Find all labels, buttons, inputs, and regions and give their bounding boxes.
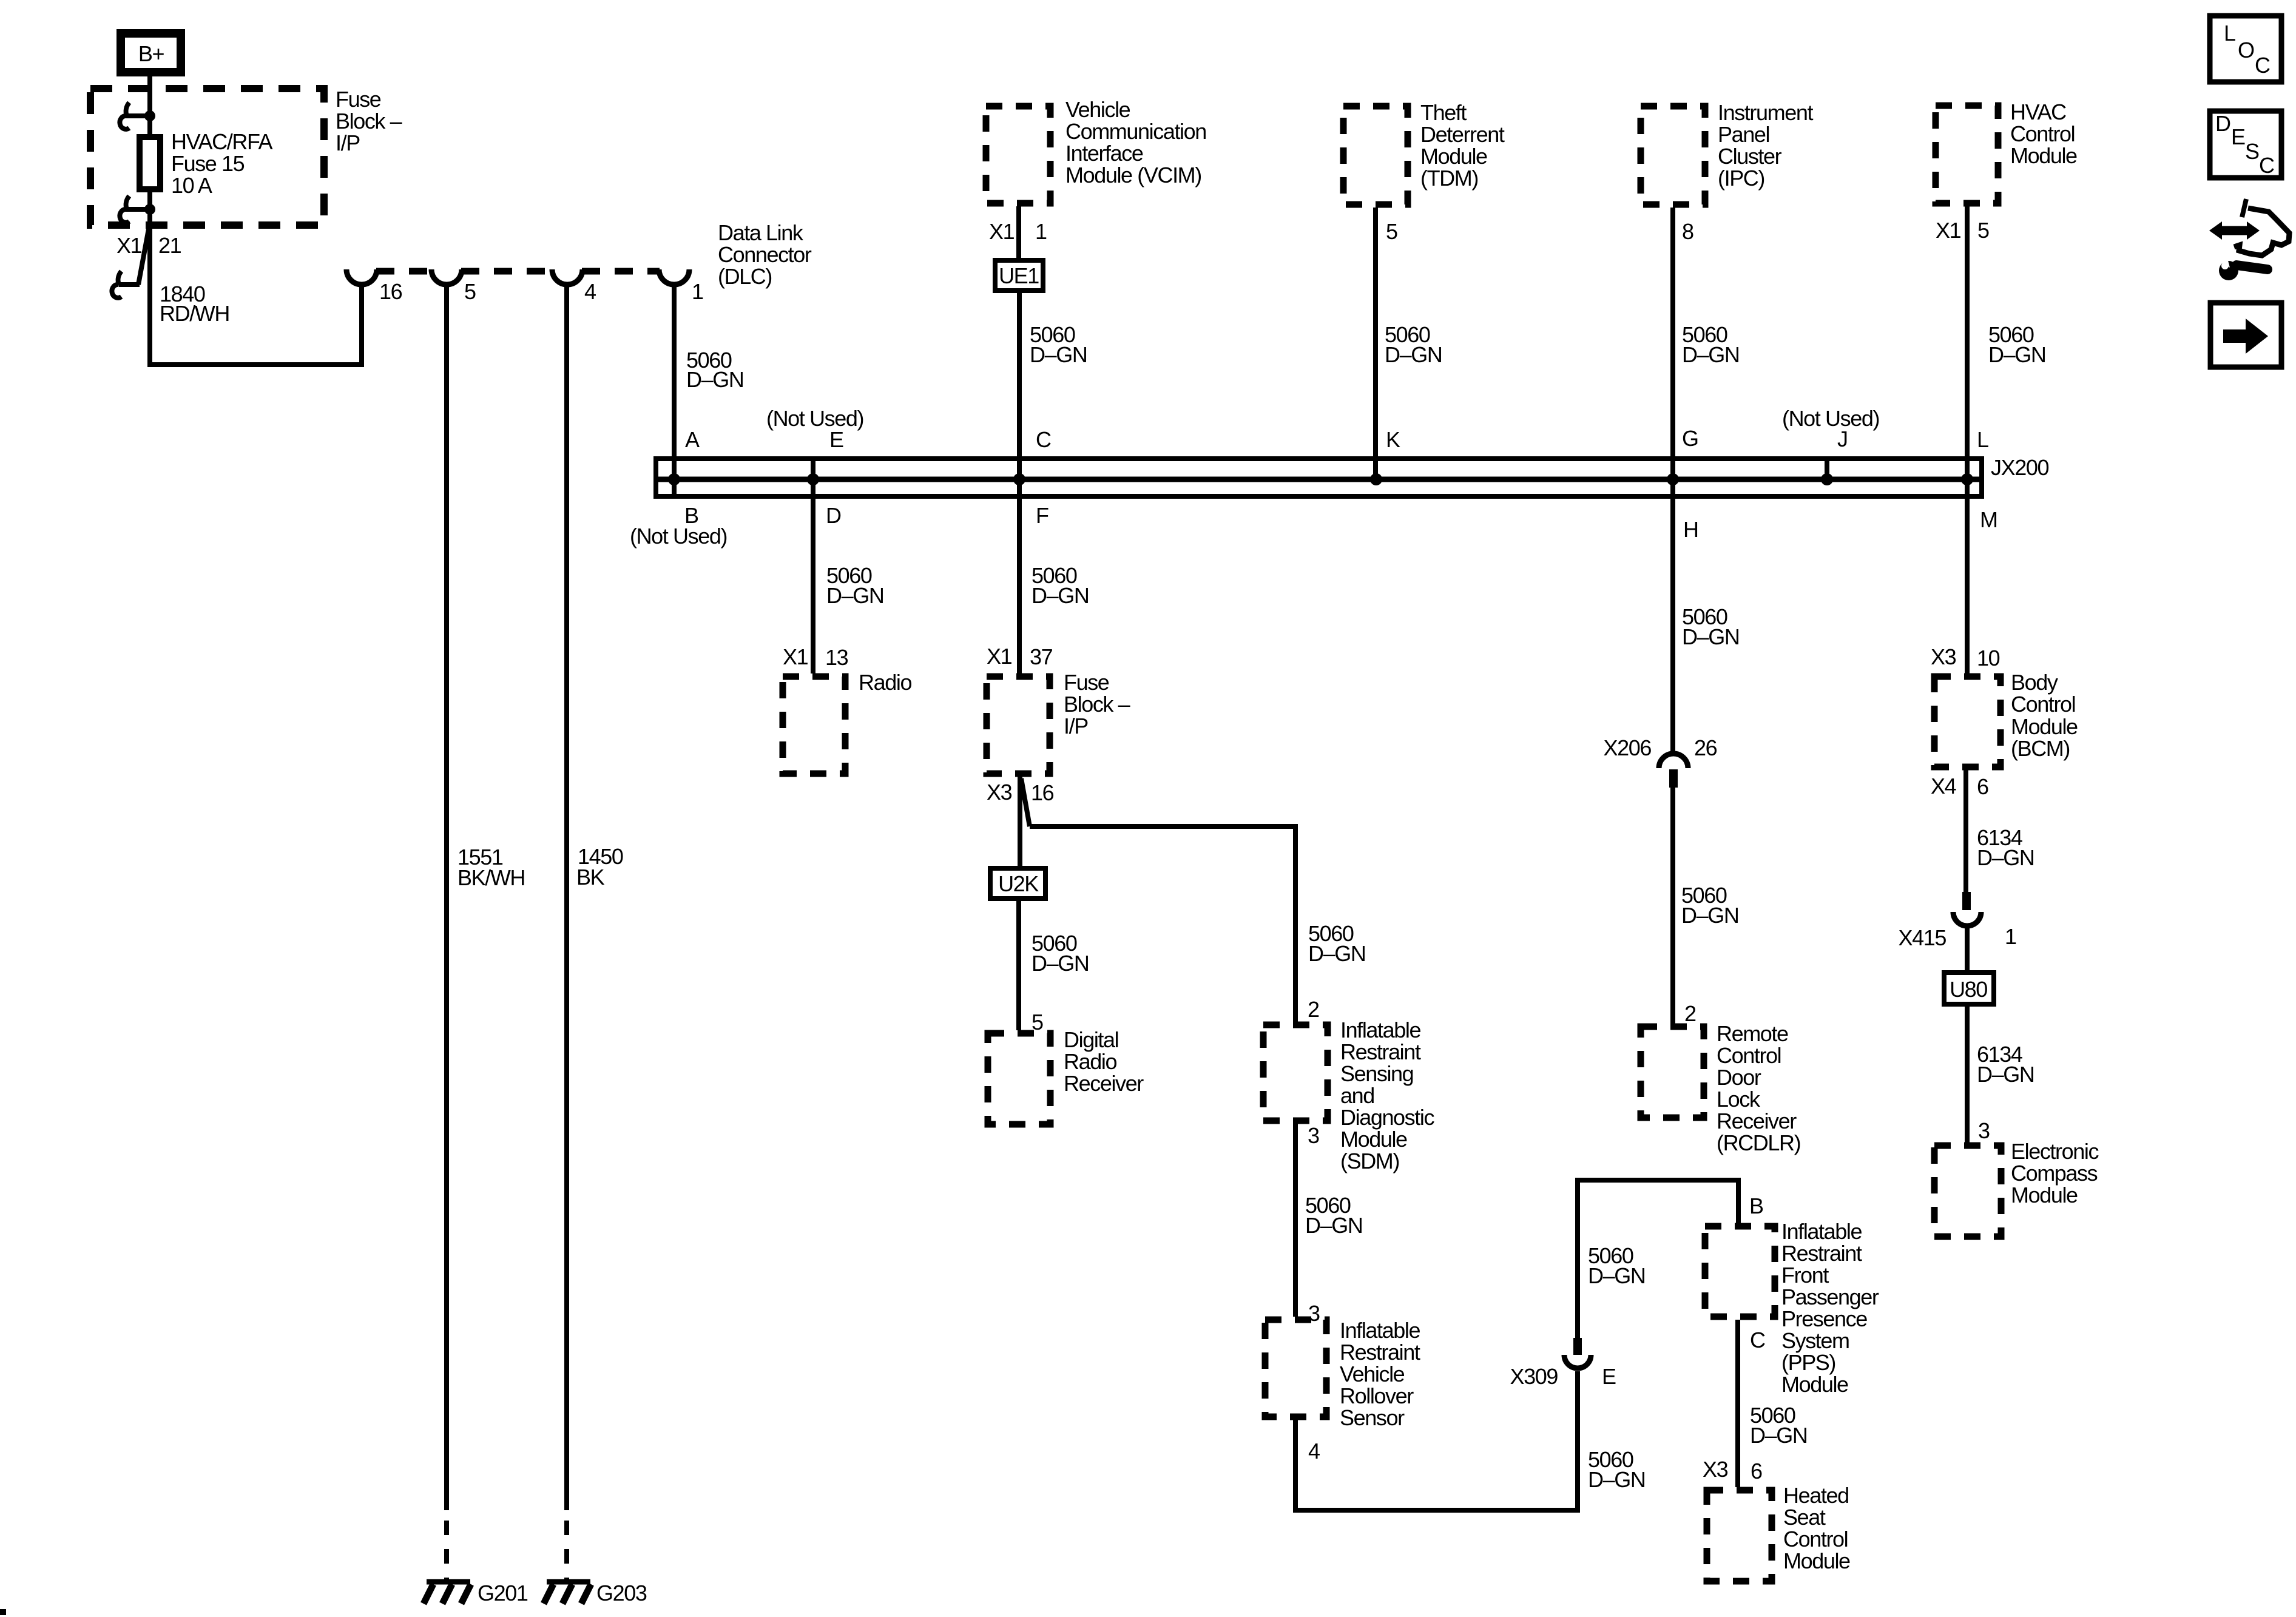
svg-text:Control: Control	[2011, 692, 2075, 717]
wire VCIM X1-1 to UE1	[1016, 206, 1021, 258]
svg-text:6: 6	[1751, 1459, 1762, 1484]
svg-text:D–GN: D–GN	[1977, 1062, 2034, 1087]
svg-text:G201: G201	[478, 1581, 528, 1605]
svg-text:HVAC: HVAC	[2010, 100, 2066, 124]
svg-text:D–GN: D–GN	[1385, 342, 1442, 367]
svg-text:10: 10	[1977, 646, 2000, 670]
svg-text:S: S	[2245, 139, 2259, 164]
RCDLR name label	[1717, 1021, 1800, 1155]
svg-text:4: 4	[584, 279, 596, 304]
wire IPC pin 8 to splice terminal G / H branch to X206	[1670, 208, 1675, 754]
wire label 1840 RD/WH	[160, 282, 229, 326]
svg-text:D–GN: D–GN	[686, 367, 743, 392]
DLC cavity pin 5	[431, 269, 462, 285]
svg-text:Rollover: Rollover	[1340, 1383, 1414, 1408]
svg-text:L: L	[1977, 427, 1988, 452]
svg-text:Vehicle: Vehicle	[1340, 1362, 1405, 1386]
svg-text:HVAC/RFA: HVAC/RFA	[171, 129, 273, 154]
svg-text:1: 1	[1035, 219, 1047, 244]
svg-text:16: 16	[1031, 780, 1054, 805]
svg-text:3: 3	[1978, 1118, 1990, 1143]
wire label 5060 D-GN (DLC pin 1)	[686, 348, 743, 392]
dashed wire to G201	[444, 1521, 449, 1579]
svg-text:D–GN: D–GN	[1682, 624, 1739, 649]
stub terminal J	[1825, 459, 1829, 479]
legend harness repair icon	[2209, 199, 2289, 280]
svg-text:13: 13	[825, 645, 848, 670]
svg-text:Fuse: Fuse	[336, 87, 381, 112]
svg-text:D–GN: D–GN	[1588, 1263, 1645, 1288]
B+ battery feed terminal	[121, 33, 181, 72]
svg-text:Diagnostic: Diagnostic	[1340, 1105, 1434, 1130]
svg-text:G: G	[1682, 426, 1698, 451]
svg-text:C: C	[1750, 1328, 1765, 1352]
svg-text:Communication: Communication	[1065, 119, 1206, 144]
wire TDM pin 5 to splice terminal K	[1373, 208, 1378, 479]
fuse block I/P dashed box	[90, 89, 324, 225]
svg-text:D: D	[826, 503, 841, 528]
svg-text:X1: X1	[987, 644, 1012, 669]
wire fuse block X3-16 down to U2K	[1018, 777, 1022, 866]
DTC tag U80	[1944, 973, 1994, 1004]
svg-text:(Not Used): (Not Used)	[630, 524, 727, 549]
VCIM name label	[1065, 97, 1206, 187]
Digital Radio Receiver name label	[1064, 1027, 1144, 1096]
svg-text:System: System	[1781, 1328, 1849, 1353]
PPS name label	[1781, 1219, 1879, 1397]
svg-text:D–GN: D–GN	[1681, 903, 1738, 928]
svg-text:Passenger: Passenger	[1781, 1284, 1879, 1309]
branch slash X3-16 to SDM feed	[1021, 778, 1030, 826]
svg-text:Receiver: Receiver	[1064, 1071, 1144, 1096]
module VCIM dashed box	[986, 106, 1050, 203]
svg-text:26: 26	[1694, 735, 1717, 760]
svg-text:Module: Module	[1420, 144, 1487, 169]
svg-text:Receiver: Receiver	[1717, 1109, 1797, 1133]
svg-text:B+: B+	[138, 41, 164, 66]
svg-text:X3: X3	[987, 780, 1012, 805]
svg-text:X206: X206	[1604, 735, 1652, 760]
svg-text:RD/WH: RD/WH	[160, 301, 229, 326]
wire U2K to Digital Radio Receiver pin 5	[1016, 901, 1021, 1030]
svg-text:Vehicle: Vehicle	[1065, 97, 1130, 122]
wire fuse to X1 pin 21 corner	[150, 192, 362, 365]
svg-text:X1: X1	[989, 219, 1015, 244]
svg-text:Sensor: Sensor	[1340, 1405, 1405, 1430]
svg-text:X3: X3	[1931, 644, 1956, 669]
wire rollover pin 4 down and across	[1295, 1371, 1578, 1510]
module Radio dashed box	[783, 677, 845, 774]
svg-text:E: E	[1602, 1364, 1616, 1389]
svg-text:Remote: Remote	[1717, 1021, 1788, 1046]
svg-text:D–GN: D–GN	[1682, 342, 1739, 367]
svg-text:Module: Module	[1340, 1127, 1407, 1152]
wire DLC pin 1 to splice pack terminal A	[672, 285, 677, 496]
connector X309 terminal E	[1510, 1338, 1616, 1389]
svg-text:BK: BK	[576, 865, 605, 890]
wire label 5060 D-GN (terminal G)	[1682, 322, 1739, 367]
svg-text:Module: Module	[1783, 1548, 1850, 1573]
wire label 5060 D-GN (terminal C)	[1030, 322, 1087, 367]
svg-text:21: 21	[158, 233, 181, 258]
module RCDLR dashed box	[1641, 1027, 1704, 1118]
svg-text:Module: Module	[1781, 1372, 1848, 1397]
svg-text:5: 5	[1386, 219, 1397, 244]
svg-text:Heated: Heated	[1783, 1483, 1849, 1508]
svg-text:(DLC): (DLC)	[718, 264, 772, 289]
svg-text:Control: Control	[1717, 1043, 1781, 1068]
wire HVAC X1-5 to splice terminal L / M branch to BCM	[1965, 206, 1970, 673]
svg-text:1: 1	[692, 279, 703, 304]
svg-text:Electronic: Electronic	[2011, 1139, 2099, 1164]
terminal clip upper	[120, 103, 155, 129]
junction dot D	[807, 473, 819, 485]
connector X1 pin 21 slash and clip	[112, 226, 149, 298]
svg-text:(Not Used): (Not Used)	[766, 406, 863, 431]
svg-text:U2K: U2K	[998, 871, 1039, 896]
svg-text:D–GN: D–GN	[1030, 342, 1087, 367]
svg-text:Cluster: Cluster	[1718, 144, 1782, 169]
svg-text:Control: Control	[1783, 1527, 1848, 1551]
svg-text:Module: Module	[2010, 143, 2077, 168]
svg-text:Digital: Digital	[1064, 1027, 1118, 1052]
legend DESC box	[2210, 111, 2281, 178]
wire label 5060 D-GN (terminal K)	[1385, 322, 1442, 367]
svg-text:Data Link: Data Link	[718, 220, 804, 245]
wire DLC pin 5 to G201	[444, 285, 449, 1510]
wire label 6134 D-GN (BCM to X415)	[1977, 825, 2034, 870]
svg-text:E: E	[829, 427, 843, 452]
wire SDM pin 3 to rollover sensor pin 3	[1293, 1124, 1298, 1317]
svg-text:B: B	[1749, 1193, 1763, 1218]
DTC tag UE1	[995, 260, 1043, 291]
svg-text:(TDM): (TDM)	[1420, 166, 1478, 191]
wire BCM X4-6 to X415	[1963, 770, 1968, 892]
DTC tag U2K	[990, 868, 1045, 899]
DLC cavity pin 1	[659, 269, 689, 285]
svg-text:M: M	[1980, 507, 1997, 532]
svg-text:6: 6	[1977, 774, 1988, 799]
DLC cavity pin 4	[552, 269, 582, 285]
ground G201	[424, 1581, 528, 1605]
svg-text:D–GN: D–GN	[1750, 1423, 1807, 1448]
wire DLC pin 4 to G203	[564, 285, 569, 1510]
wire X206 to RCDLR pin 2	[1670, 788, 1675, 1024]
svg-text:4: 4	[1308, 1439, 1320, 1463]
svg-text:E: E	[2231, 124, 2245, 149]
wire X415 to U80	[1965, 927, 1970, 970]
svg-text:Deterrent: Deterrent	[1420, 122, 1505, 147]
dashed wire to G203	[564, 1521, 569, 1579]
DLC internal dashed bus	[376, 268, 660, 275]
svg-text:Connector: Connector	[718, 242, 812, 267]
module rollover sensor dashed box	[1265, 1320, 1326, 1417]
svg-text:and: and	[1340, 1083, 1374, 1108]
svg-text:K: K	[1386, 427, 1400, 452]
svg-text:(BCM): (BCM)	[2011, 736, 2070, 761]
svg-text:D–GN: D–GN	[1305, 1213, 1362, 1238]
svg-text:Front: Front	[1781, 1263, 1829, 1288]
svg-text:Module: Module	[2011, 714, 2078, 739]
svg-text:X309: X309	[1510, 1364, 1558, 1389]
svg-text:(PPS): (PPS)	[1781, 1350, 1835, 1375]
svg-text:(RCDLR): (RCDLR)	[1717, 1130, 1800, 1155]
module TDM dashed box	[1343, 106, 1408, 204]
SDM name label	[1340, 1018, 1434, 1173]
ground G203	[544, 1581, 647, 1605]
svg-text:Radio: Radio	[1064, 1049, 1116, 1074]
svg-text:8: 8	[1682, 219, 1693, 244]
wire label 6134 D-GN (U80 to compass)	[1977, 1042, 2034, 1087]
svg-text:O: O	[2238, 38, 2254, 62]
svg-text:C: C	[2259, 153, 2274, 178]
svg-text:Module: Module	[2011, 1183, 2078, 1207]
junction dot K	[1370, 473, 1382, 485]
svg-text:3: 3	[1308, 1123, 1319, 1148]
fuse HVAC/RFA Fuse 15 10A	[140, 129, 273, 198]
svg-text:Block –: Block –	[336, 109, 402, 133]
wire label 5060 D-GN (PPS to heated seat)	[1750, 1403, 1807, 1448]
junction dot A	[668, 473, 680, 485]
svg-text:Sensing: Sensing	[1340, 1061, 1413, 1086]
wire label 5060 D-GN (SDM feed)	[1308, 921, 1365, 966]
svg-text:2: 2	[1684, 1001, 1696, 1026]
wire label 5060 D-GN (X206 to RCDLR)	[1681, 883, 1738, 928]
svg-text:5: 5	[1977, 218, 1989, 243]
svg-text:Block –: Block –	[1064, 692, 1130, 717]
svg-text:D–GN: D–GN	[826, 583, 883, 608]
svg-text:5: 5	[464, 279, 476, 304]
IPC name label	[1718, 100, 1813, 191]
svg-text:Restraint: Restraint	[1340, 1340, 1420, 1365]
junction dot F	[1013, 473, 1025, 485]
svg-text:Body: Body	[2011, 670, 2058, 695]
module HVAC control module dashed box	[1936, 106, 1998, 203]
svg-text:(IPC): (IPC)	[1718, 166, 1764, 191]
legend forward arrow box	[2210, 303, 2281, 367]
connector X415 terminal 1	[1899, 892, 2016, 950]
svg-text:D–GN: D–GN	[1977, 845, 2034, 870]
svg-text:X4: X4	[1931, 774, 1956, 798]
svg-text:L: L	[2224, 21, 2235, 46]
module SDM dashed box	[1263, 1025, 1328, 1121]
svg-text:16: 16	[379, 279, 402, 304]
svg-text:Compass: Compass	[2011, 1161, 2098, 1186]
wire label 5060 D-GN (terminal D)	[826, 563, 883, 608]
module PPS dashed box	[1705, 1226, 1775, 1317]
module heated seat control dashed box	[1707, 1490, 1772, 1581]
svg-text:Theft: Theft	[1420, 100, 1467, 125]
wire label 5060 D-GN (terminal L)	[1988, 322, 2045, 367]
svg-text:Inflatable: Inflatable	[1340, 1018, 1420, 1042]
svg-text:U80: U80	[1950, 977, 1987, 1002]
svg-text:Seat: Seat	[1783, 1505, 1826, 1530]
svg-text:X1: X1	[116, 233, 142, 258]
svg-text:D–GN: D–GN	[1308, 941, 1365, 966]
svg-text:Restraint: Restraint	[1781, 1241, 1862, 1266]
svg-text:10 A: 10 A	[171, 173, 212, 198]
module electronic compass dashed box	[1934, 1146, 2001, 1237]
svg-text:UE1: UE1	[999, 263, 1039, 288]
page artifact dot bottom-left	[0, 1609, 6, 1615]
module Digital Radio Receiver dashed box	[988, 1033, 1050, 1124]
wire label 5060 D-GN (SDM to rollover)	[1305, 1193, 1362, 1238]
wire PPS pin C to heated seat module	[1735, 1320, 1740, 1487]
junction dot J	[1821, 473, 1833, 485]
svg-text:H: H	[1683, 517, 1698, 542]
wire label 5060 D-GN (X309 to PPS)	[1588, 1243, 1645, 1288]
wire label 1450 BK	[576, 844, 623, 890]
svg-text:Inflatable: Inflatable	[1781, 1219, 1862, 1244]
wire label 5060 D-GN (U2K drop)	[1032, 931, 1089, 976]
svg-text:I/P: I/P	[336, 130, 360, 155]
wire terminal D to Radio	[811, 456, 815, 673]
DLC cavity pin 16	[346, 269, 377, 285]
svg-text:C: C	[1036, 427, 1051, 452]
wire B+ to fuse	[147, 76, 152, 134]
svg-text:D: D	[2215, 111, 2230, 136]
electronic compass name label	[2011, 1139, 2099, 1207]
svg-text:A: A	[685, 427, 700, 452]
svg-text:(SDM): (SDM)	[1340, 1149, 1399, 1173]
svg-text:I/P: I/P	[1064, 714, 1088, 738]
fuse block I/P label	[336, 87, 402, 155]
heated seat name label	[1783, 1483, 1850, 1573]
svg-text:Radio: Radio	[859, 670, 911, 695]
wire UE1 to splice terminal C / F branch to fuse block	[1017, 293, 1022, 673]
wire label 5060 D-GN (terminal F)	[1032, 563, 1089, 608]
svg-text:Module (VCIM): Module (VCIM)	[1065, 163, 1201, 187]
fuse block I/P lower name label	[1064, 670, 1130, 738]
wire label 1551 BK/WH	[458, 845, 525, 890]
TDM name label	[1420, 100, 1505, 191]
svg-text:X1: X1	[783, 644, 808, 669]
svg-text:(Not Used): (Not Used)	[1782, 406, 1879, 431]
wire label 5060 D-GN (rollover to X309)	[1588, 1447, 1645, 1492]
junction dot M	[1961, 473, 1973, 485]
svg-text:D–GN: D–GN	[1988, 342, 2045, 367]
module BCM dashed box	[1934, 677, 2001, 767]
svg-text:2: 2	[1308, 997, 1319, 1022]
svg-text:Lock: Lock	[1717, 1087, 1761, 1112]
splice pack JX200 body	[656, 455, 2048, 496]
svg-text:X1: X1	[1936, 218, 1961, 243]
wire SDM feed horizontal run	[1030, 824, 1295, 829]
svg-text:D–GN: D–GN	[1032, 583, 1089, 608]
legend LOC box	[2210, 16, 2281, 82]
svg-text:D–GN: D–GN	[1032, 951, 1089, 976]
svg-text:Presence: Presence	[1781, 1306, 1867, 1331]
svg-text:G203: G203	[596, 1581, 647, 1605]
svg-text:X3: X3	[1703, 1457, 1728, 1482]
wire label 5060 D-GN (terminal H)	[1682, 604, 1739, 649]
svg-text:X415: X415	[1899, 925, 1947, 950]
svg-text:Interface: Interface	[1065, 141, 1143, 166]
svg-text:Instrument: Instrument	[1718, 100, 1813, 125]
connector X206 terminal 26	[1604, 735, 1717, 788]
wire SDM feed drop to pin 2	[1293, 824, 1298, 1022]
svg-text:Control: Control	[2010, 121, 2075, 146]
svg-text:37: 37	[1030, 644, 1053, 669]
terminal clip lower	[120, 196, 155, 223]
svg-text:C: C	[2255, 53, 2270, 78]
rollover sensor name label	[1340, 1318, 1420, 1430]
svg-text:Fuse: Fuse	[1064, 670, 1109, 695]
module IPC dashed box	[1641, 106, 1705, 204]
svg-text:Restraint: Restraint	[1340, 1039, 1421, 1064]
svg-text:Panel: Panel	[1718, 122, 1769, 147]
wire U80 to compass module pin 3	[1965, 1007, 1970, 1143]
svg-text:JX200: JX200	[1991, 455, 2048, 480]
svg-text:Door: Door	[1717, 1065, 1761, 1090]
Data Link Connector (DLC) label	[718, 220, 812, 289]
svg-text:D–GN: D–GN	[1588, 1467, 1645, 1492]
svg-text:BK/WH: BK/WH	[458, 865, 525, 890]
svg-text:F: F	[1036, 503, 1048, 528]
HVAC name label	[2010, 100, 2077, 168]
svg-text:Inflatable: Inflatable	[1340, 1318, 1420, 1343]
svg-text:Fuse 15: Fuse 15	[171, 151, 245, 176]
wire X309 up and across to PPS pin B	[1578, 1180, 1738, 1338]
svg-text:1: 1	[2005, 924, 2016, 949]
fuse block I/P lower dashed box	[987, 677, 1050, 774]
junction dot H	[1667, 473, 1679, 485]
BCM name label	[2011, 670, 2078, 761]
